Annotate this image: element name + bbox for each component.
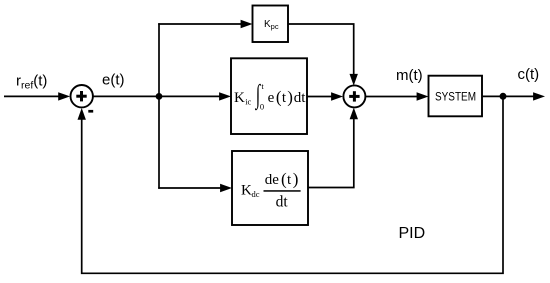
svg-text:): )	[287, 87, 293, 106]
wire top branch to Kpc	[158, 23, 241, 25]
svg-text:e(t): e(t)	[102, 72, 125, 89]
svg-text:e: e	[268, 90, 275, 106]
svg-text:K: K	[234, 90, 245, 106]
svg-text:K: K	[241, 183, 252, 199]
svg-text:0: 0	[260, 101, 264, 111]
box Kpc	[253, 6, 289, 43]
node output junction dot	[500, 93, 507, 100]
formula Kdc derivative	[241, 170, 301, 211]
svg-text:c(t): c(t)	[518, 66, 540, 83]
wire S2 to SYSTEM	[366, 96, 418, 98]
svg-text:dc: dc	[252, 189, 260, 199]
wire S1 to integral box	[93, 95, 220, 97]
svg-text:PID: PID	[399, 225, 426, 242]
box integral Kic	[231, 58, 307, 134]
wire integral box to S2	[307, 96, 332, 98]
svg-text:Kpc: Kpc	[264, 19, 279, 31]
svg-text:): )	[293, 170, 299, 189]
wire branch vertical	[158, 23, 160, 189]
box derivative Kdc	[232, 151, 308, 225]
svg-text:dt: dt	[276, 193, 289, 210]
wire input r_ref to summing junction	[4, 95, 59, 97]
node junction dot	[156, 93, 163, 100]
summing junction S1	[71, 85, 93, 107]
wire Kpc to S2 top	[288, 24, 354, 74]
minus sign at S1	[88, 110, 93, 113]
box SYSTEM	[429, 76, 483, 117]
svg-text:dt: dt	[294, 90, 307, 106]
wire bottom branch to Kdc	[158, 187, 221, 189]
svg-text:de: de	[265, 172, 280, 188]
svg-text:m(t): m(t)	[396, 67, 423, 84]
svg-text:ic: ic	[245, 96, 251, 106]
svg-text:SYSTEM: SYSTEM	[435, 90, 476, 104]
summing junction S2	[343, 85, 365, 107]
wire Kdc to S2 bottom	[308, 119, 354, 188]
wire SYSTEM to output	[482, 95, 534, 97]
formula Kic integral	[234, 79, 306, 112]
wire feedback path	[82, 96, 503, 273]
